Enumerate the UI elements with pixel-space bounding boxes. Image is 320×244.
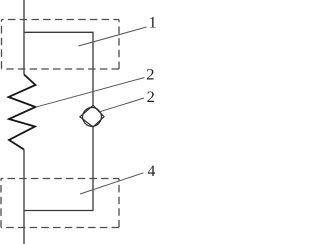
wire: branch bottom (valve bottom to node at 24,210.5) [24, 127, 93, 211]
wire: main vertical line, bottom segment [23, 150, 25, 244]
wire: branch top (node at 24,32.3 to valve top) [24, 32, 93, 105]
valve 2: diamond [80, 105, 104, 127]
wire: main vertical line, top segment [23, 0, 25, 75]
resistor 2 (zigzag) [9, 75, 36, 150]
dashed box 4 (bottom): left edge [0, 179, 2, 228]
dashed box 1 (top): bottom edge [2, 68, 120, 70]
svg-text:2: 2 [147, 89, 155, 106]
dashed box 4 (bottom): top edge [1, 178, 119, 180]
leader line for label 4 [80, 173, 144, 194]
dashed box 4 (bottom): right edge [118, 179, 120, 228]
svg-text:2: 2 [146, 66, 154, 83]
svg-text:4: 4 [148, 163, 156, 180]
leader line for lower label 2 (to valve) [100, 98, 144, 112]
dashed box 1 (top): right edge [118, 20, 120, 70]
svg-text:1: 1 [149, 14, 156, 31]
dashed box 1 (top): left edge [1, 20, 3, 70]
valve 2: circle [83, 108, 102, 127]
dashed box 4 (bottom): bottom edge [1, 227, 119, 229]
leader line for label 1 [79, 27, 147, 46]
leader line for upper label 2 (to resistor) [36, 78, 145, 108]
dashed box 1 (top): top edge [2, 19, 120, 21]
